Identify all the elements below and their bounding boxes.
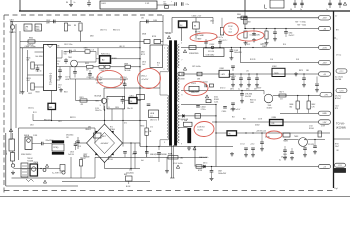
svg-text:+47u/25V: +47u/25V <box>141 79 149 81</box>
rail y104 <box>181 104 216 106</box>
gnd below choke <box>188 146 190 148</box>
vert x95 up <box>94 128 96 143</box>
secondary rail -16V <box>241 62 331 64</box>
capacitor C605 <box>181 2 183 6</box>
secondary rail y90 <box>181 90 264 92</box>
junction x216 <box>215 104 216 105</box>
box D6B <box>196 165 202 168</box>
svg-text:1ku5: 1ku5 <box>229 31 233 33</box>
MOSFET BUZ91A <box>101 98 106 103</box>
wire y66 right <box>110 66 125 68</box>
vert x195 <box>194 147 196 167</box>
box D6A <box>184 122 193 126</box>
capacitor C817 <box>73 71 77 73</box>
wire y113 <box>280 112 330 114</box>
transformer bottom stub pair <box>170 145 172 178</box>
capacitor C8V <box>75 141 77 144</box>
coupling box L8B <box>149 110 159 118</box>
wire y66 <box>70 66 87 68</box>
svg-text:C654: C654 <box>283 154 287 156</box>
red mark E6 <box>184 81 209 97</box>
svg-text:860: 860 <box>290 106 293 108</box>
svg-text:2#7: 2#7 <box>150 116 153 118</box>
svg-text:C801: C801 <box>10 19 14 21</box>
right col oval3 <box>335 163 346 167</box>
wire opto right <box>111 58 141 60</box>
oval +B <box>319 72 331 76</box>
svg-text:R68#: R68# <box>312 104 316 106</box>
wire second row y41 <box>20 41 144 43</box>
svg-text:C1610: C1610 <box>222 111 227 113</box>
svg-text:R73#: R73# <box>335 144 339 146</box>
svg-text:JR80# DM#D#: JR80# DM#D# <box>21 154 32 156</box>
svg-text:1#u 78a/15W: 1#u 78a/15W <box>250 34 260 36</box>
svg-text:C#6: C#6 <box>270 59 273 61</box>
svg-text:D868: D868 <box>124 63 128 65</box>
box y115 <box>195 114 201 119</box>
cap row small <box>204 84 206 88</box>
vert from filter <box>19 31 21 42</box>
secondary rail +B left <box>181 73 219 75</box>
svg-text:220u/7#v: 220u/7#v <box>95 110 102 112</box>
cap x315 <box>314 140 316 147</box>
box R860 <box>193 22 200 29</box>
red mark E7 <box>194 121 215 137</box>
capacitor C608 <box>301 0 303 8</box>
svg-text:D813: D813 <box>83 155 87 157</box>
wire y146 <box>140 146 233 148</box>
transformer pin left 2 <box>160 71 167 73</box>
svg-text:2X78(r): 2X78(r) <box>53 147 59 149</box>
svg-text:BY#3: BY#3 <box>141 54 145 56</box>
transistor T661 <box>263 91 265 95</box>
resistor R6C3 inline <box>283 133 290 137</box>
svg-text:R8: R8 <box>74 25 76 27</box>
box C808 <box>154 40 161 44</box>
resistor R67 inline <box>279 94 286 97</box>
svg-text:C84#: C84# <box>210 21 214 23</box>
svg-text:2n: 2n <box>300 9 302 11</box>
svg-text:Ta--7#W T#V: Ta--7#W T#V <box>52 173 62 175</box>
svg-text:1#.#u#: 1#.#u# <box>240 144 245 146</box>
res x266 <box>265 29 267 32</box>
black box C861 <box>129 98 137 104</box>
black box D607 snubber <box>179 21 187 28</box>
svg-text:C8#1 120n: C8#1 120n <box>64 44 72 46</box>
box inline a <box>179 72 184 76</box>
svg-text:R8#1: R8#1 <box>145 132 149 134</box>
svg-text:R80: R80 <box>68 25 71 27</box>
warning tri2 <box>45 164 48 167</box>
vert x80 down <box>80 31 82 42</box>
svg-text:2n2/#50: 2n2/#50 <box>68 154 74 156</box>
junction x140 y100 <box>139 100 140 101</box>
wire y51 <box>71 51 85 53</box>
cap in box <box>121 99 125 101</box>
svg-text:L601: L601 <box>102 3 106 5</box>
capacitor C615 <box>58 69 62 71</box>
cap C84Ba <box>123 151 127 153</box>
vert x71 <box>70 157 72 178</box>
svg-text:3C#47B: 3C#47B <box>308 144 314 146</box>
bias box stub down <box>111 109 113 121</box>
wire y100 <box>76 100 102 102</box>
optocoupler IC802 black box <box>100 56 111 63</box>
svg-text:2.2n: 2.2n <box>186 4 189 6</box>
primary winding arcs bottom <box>167 95 169 98</box>
svg-text:R1544: R1544 <box>309 128 314 130</box>
svg-text:R#4: R#4 <box>283 44 286 46</box>
wire y79 <box>70 78 128 80</box>
capacitor C814 <box>69 50 71 54</box>
svg-text:220u/400v: 220u/400v <box>126 172 134 174</box>
oval -16V <box>319 60 331 64</box>
svg-text:R873: R873 <box>299 70 303 72</box>
svg-text:L: L <box>264 5 267 11</box>
svg-text:#u/TBM#: #u/TBM# <box>195 38 202 40</box>
wire rail x16 <box>15 24 17 128</box>
snubber top wire <box>172 17 213 19</box>
svg-text:C#4B#: C#4B# <box>209 44 214 46</box>
box C855 inline <box>85 50 90 53</box>
svg-text:BYD3: BYD3 <box>152 36 156 38</box>
vertical x163 <box>162 15 164 42</box>
svg-text:C861: C861 <box>130 95 134 97</box>
svg-text:4x1N4007: 4x1N4007 <box>101 143 109 145</box>
bridge diode nw <box>95 131 98 134</box>
transformer pin left 1 <box>163 44 167 46</box>
right col tick2 <box>334 37 337 39</box>
svg-text:4n7: 4n7 <box>58 87 61 89</box>
svg-text:C612 1u: C612 1u <box>28 107 34 109</box>
cap x286 <box>285 29 287 32</box>
tri above 104 <box>205 95 208 98</box>
svg-text:D84B: D84B <box>142 34 146 36</box>
bridge top wire <box>104 106 106 124</box>
oval -30 <box>319 26 331 30</box>
svg-text:BUZ91A: BUZ91A <box>95 95 102 98</box>
transformer pin lower a <box>160 94 167 96</box>
wire source down <box>103 103 105 110</box>
svg-text:22u/TBB: 22u/TBB <box>335 79 341 81</box>
svg-text:5#7B#S: 5#7B#S <box>120 80 127 82</box>
svg-text:C86#: C86# <box>247 21 251 23</box>
svg-text:C1#8: C1#8 <box>258 119 262 121</box>
res x222 vert <box>220 28 223 36</box>
svg-text:BSP: BSP <box>124 174 127 176</box>
svg-text:BTB04: BTB04 <box>110 129 115 131</box>
cap near R873 <box>303 74 305 78</box>
transformer core bar right <box>174 41 177 146</box>
wire y160 <box>12 159 19 161</box>
degauss coil box <box>52 144 64 151</box>
svg-text:+#V/4#V: +#V/4#V <box>255 87 262 89</box>
junction x140 y88 <box>139 87 140 88</box>
resistor R821 inline <box>80 99 87 102</box>
vert x216 <box>215 105 217 167</box>
IC601 bottom pin <box>51 91 53 104</box>
svg-text:R6: R6 <box>66 2 68 4</box>
svg-text:a: a <box>337 39 338 41</box>
right col dark blob <box>334 168 346 172</box>
svg-text:D84: D84 <box>88 126 91 128</box>
transistor TH63 <box>299 138 308 147</box>
left stack gnd <box>12 171 14 173</box>
resistor R806 vertical <box>64 23 67 31</box>
black box IC1602 <box>227 131 237 136</box>
cap x254 <box>253 29 255 34</box>
resistor R684a <box>297 96 299 102</box>
svg-text:22u/T: 22u/T <box>335 146 339 148</box>
svg-text:C860 + 100n: C860 + 100n <box>25 46 36 48</box>
svg-text:R82# 47#: R82# 47# <box>44 119 51 121</box>
bridge left wire <box>78 142 87 144</box>
pin wires right <box>57 47 141 49</box>
svg-text:R66# 1k: R66# 1k <box>250 99 256 101</box>
svg-text:R1608: R1608 <box>214 99 219 101</box>
svg-text:+16V: +16V <box>322 47 327 49</box>
bridge bottom wire <box>104 163 106 169</box>
svg-text:T2A/125: T2A/125 <box>9 31 15 34</box>
degauss sub-box left edge <box>5 133 7 186</box>
svg-text:C871: C871 <box>230 88 234 90</box>
secondary rail +16V <box>181 47 330 49</box>
wire C861 to rail <box>137 99 140 101</box>
svg-text:C8#6: C8#6 <box>142 61 146 63</box>
bias box <box>107 96 125 109</box>
ground right of IC <box>60 88 62 90</box>
posistor TH801 box <box>30 164 38 176</box>
svg-text:1M2: 1M2 <box>180 157 183 159</box>
bridge diode sw <box>95 152 98 155</box>
wire y95.5 <box>273 95 330 97</box>
degauss coil bar top <box>52 141 64 144</box>
resistor R604 <box>165 6 169 9</box>
wire drain up <box>103 88 105 98</box>
svg-text:9: 9 <box>100 105 101 107</box>
capacitor C609 <box>329 0 331 8</box>
svg-text:C6: C6 <box>290 9 292 11</box>
svg-text:1000u/20V: 1000u/20V <box>218 173 227 175</box>
svg-text:R812: R812 <box>85 63 89 65</box>
snubber lower wires <box>181 28 183 42</box>
svg-text:D#4 C#: D#4 C# <box>220 87 226 89</box>
wire to IC top y47.8 <box>20 47 44 49</box>
vert x18 <box>18 128 20 160</box>
svg-text:C#4B 22Mw: C#4B 22Mw <box>206 55 216 57</box>
svg-text:GND: GND <box>322 113 327 115</box>
svg-text:C61#: C61# <box>58 84 62 86</box>
svg-text:2#2: 2#2 <box>280 99 283 101</box>
svg-text:R8: R8 <box>194 26 196 28</box>
capacitor C604 <box>174 2 176 6</box>
capacitor C819 <box>88 73 92 75</box>
oval +9V <box>320 93 332 97</box>
svg-text:C#1#: C#1# <box>57 61 61 63</box>
svg-text:C8: C8 <box>130 101 132 103</box>
resistor R63A inline <box>168 156 178 159</box>
bottom sym diamondlets <box>26 179 34 182</box>
svg-text:D160#: D160# <box>255 124 260 126</box>
svg-text:C#34 47u/1#V: C#34 47u/1#V <box>230 109 241 111</box>
box D860 inline <box>241 16 247 19</box>
junction x140 y66 <box>139 66 140 67</box>
wire from SE130 down <box>51 110 53 121</box>
bottom tri3 <box>43 180 46 183</box>
svg-text:C81#: C81# <box>58 121 62 123</box>
cap left pin <box>36 67 40 69</box>
svg-text:1u: 1u <box>238 88 240 90</box>
svg-text:MKP#: MKP# <box>6 151 8 155</box>
box inline b <box>197 72 202 76</box>
red mark E1 <box>190 32 218 42</box>
svg-text:-13V: -13V <box>322 18 327 20</box>
svg-text:R80# 2#2: R80# 2#2 <box>113 29 120 31</box>
svg-text:D84#: D84# <box>141 52 145 54</box>
svg-text:R7#: R7# <box>336 29 339 31</box>
cap 285 <box>284 146 286 150</box>
svg-text:C82# 1#n: C82# 1#n <box>150 119 157 121</box>
resistor R684b <box>308 96 310 102</box>
svg-text:R6#: R6# <box>243 119 246 121</box>
capacitor C855b <box>146 20 148 24</box>
warning triangle TR <box>167 36 170 39</box>
svg-text:C#39: C#39 <box>321 125 325 127</box>
svg-text:D#1: D#1 <box>124 122 127 124</box>
left stack circle <box>11 164 14 167</box>
PWM box pair <box>99 65 104 68</box>
wire y139 <box>285 139 299 141</box>
svg-text:#D#: #D# <box>336 150 339 152</box>
main frame top line <box>19 10 350 12</box>
junction y166 <box>211 166 212 167</box>
IC601 pin1 marker <box>47 45 53 48</box>
svg-text:IC861: IC861 <box>220 68 225 70</box>
right col divider <box>334 138 350 140</box>
svg-text:1n5#: 1n5# <box>142 64 146 66</box>
svg-text:R684: R684 <box>290 104 294 106</box>
svg-text:C864: C864 <box>289 33 293 35</box>
bridge diode se <box>111 152 114 155</box>
rail y115.9 <box>178 115 216 117</box>
svg-text:+G: +G <box>323 166 326 168</box>
svg-text:KMCA: KMCA <box>24 134 30 137</box>
wire y178 <box>12 177 96 179</box>
left stack box1 <box>9 139 15 151</box>
wire y166 <box>196 166 330 168</box>
wire rail left x11 <box>10 21 12 140</box>
svg-text:C#4#: C#4# <box>309 125 313 127</box>
svg-text:L#6: L#6 <box>246 71 249 73</box>
warning tri y70 <box>183 67 186 70</box>
C820 minus down <box>122 109 124 147</box>
svg-text:C#D#=BB#: C#D#=BB# <box>196 35 205 37</box>
svg-text:(+)C#7 #: (+)C#7 # <box>221 40 227 42</box>
rail y127 <box>178 127 188 129</box>
bridge rectifier inner diamond <box>95 133 115 154</box>
svg-text:C813: C813 <box>70 151 74 153</box>
svg-text:588: 588 <box>306 70 309 72</box>
junction x140 y58 <box>139 58 140 59</box>
svg-text:C855: C855 <box>84 47 88 49</box>
pin wires left <box>35 51 44 53</box>
small circle deg <box>43 169 46 172</box>
svg-text:C#10 1n: C#10 1n <box>36 70 42 72</box>
svg-text:73V ~ 7.6Vdc: 73V ~ 7.6Vdc <box>295 22 306 24</box>
red mark E5 <box>137 68 162 90</box>
primary left rail x140 <box>139 21 141 146</box>
vert x95 low <box>94 157 96 178</box>
svg-text:C#eB R2#: C#eB R2# <box>197 126 205 128</box>
wire opto left <box>77 61 96 63</box>
bottom wire y168 <box>14 167 61 169</box>
svg-text:B: B <box>109 107 110 109</box>
svg-text:+1#u#: +1#u# <box>250 144 255 146</box>
capacitor C610 <box>339 0 341 8</box>
cap x233 y104 <box>232 96 234 102</box>
right rail separator <box>333 11 335 188</box>
svg-text:C1619: C1619 <box>191 83 196 85</box>
vertical rail x27 <box>27 50 29 92</box>
svg-text:T661: T661 <box>268 105 272 107</box>
svg-text:47u/16V: 47u/16V <box>281 157 288 159</box>
right col oval2 <box>336 88 347 92</box>
bottom comp x62 <box>60 165 65 172</box>
svg-text:C#D8: C#D8 <box>33 135 37 137</box>
svg-text:IC8: IC8 <box>272 123 275 125</box>
svg-text:1N#0#: 1N#0# <box>81 158 86 160</box>
cap c654 <box>291 148 293 152</box>
wire AC live y21 <box>11 20 81 22</box>
svg-text:W261/10Ca: W261/10Ca <box>101 53 110 55</box>
snubber box D7 <box>204 48 225 57</box>
svg-text:T841: T841 <box>68 57 72 59</box>
transformer core bar left <box>169 41 172 146</box>
L8B stub <box>158 118 160 121</box>
caps y148 mid <box>245 133 247 147</box>
gate feed vert <box>75 79 77 100</box>
svg-text:D804-4: D804-4 <box>141 76 147 78</box>
regulator IC862 <box>272 68 285 76</box>
vert x33 <box>32 114 34 121</box>
svg-text:M6#B: M6#B <box>284 141 288 143</box>
box above 104 <box>206 100 211 103</box>
svg-text:470u/350v: 470u/350v <box>66 134 74 136</box>
svg-text:C#4# 1u/50v: C#4# 1u/50v <box>174 163 183 165</box>
choke black bar <box>188 128 192 143</box>
svg-text:2n: 2n <box>74 2 76 4</box>
vertical rail x20 <box>19 42 21 95</box>
capacitor stub a <box>205 39 207 48</box>
svg-text:TB#1-6B: TB#1-6B <box>124 70 130 72</box>
junction ac <box>10 21 11 22</box>
svg-text:(KCNM): (KCNM) <box>336 126 346 130</box>
ground in top box <box>70 0 72 3</box>
res E3 inline <box>244 17 247 24</box>
oval -13V <box>319 16 331 20</box>
wire y181 <box>62 181 150 183</box>
bridge diode ne <box>111 131 114 134</box>
thermistor TH800 box <box>35 24 42 31</box>
svg-text:R1#: R1# <box>232 116 235 118</box>
top small box <box>270 0 284 8</box>
svg-text:74u/97#: 74u/97# <box>289 35 295 37</box>
svg-text:#1c/#: #1c/# <box>335 106 339 108</box>
top sub-circuit box left edge <box>19 0 21 11</box>
junction 51 y120 <box>51 120 52 121</box>
degauss coil bar bottom <box>52 152 64 155</box>
svg-text:62k: 62k <box>27 60 30 62</box>
